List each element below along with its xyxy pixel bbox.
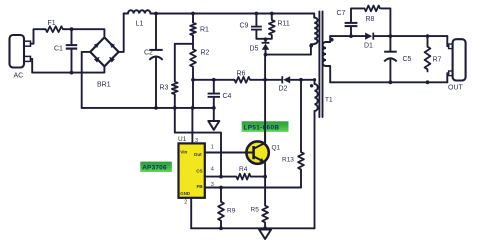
svg-text:CS: CS	[196, 169, 202, 174]
svg-text:R4: R4	[239, 166, 248, 173]
bridge rectifier BR1	[90, 37, 118, 66]
svg-text:OUT: OUT	[448, 85, 464, 92]
wire arrow stem	[213, 108, 215, 121]
resistor R7	[425, 45, 431, 72]
svg-text:C7: C7	[337, 10, 346, 17]
junction aux top	[313, 78, 316, 81]
resistor R6	[233, 77, 252, 83]
junction R1 top	[191, 12, 195, 16]
wire top rail	[151, 13, 315, 15]
junction CS descender	[219, 175, 223, 179]
wire Q1 emitter	[264, 163, 266, 177]
svg-text:C1: C1	[54, 46, 63, 53]
svg-text:T1: T1	[325, 97, 333, 104]
transformer T1 aux winding	[315, 80, 318, 229]
wire C7 top lead	[351, 8, 363, 22]
wire Vcc net	[193, 79, 234, 81]
wire AC neutral	[31, 59, 105, 73]
wire C5 top lead	[389, 36, 391, 51]
wire R13 top lead	[300, 80, 302, 151]
wire OUT pin to Q1 base	[205, 152, 247, 154]
junction collector crossing	[263, 78, 267, 82]
capacitor C4	[208, 93, 220, 98]
wire C5 bottom lead	[389, 60, 391, 83]
svg-text:C4: C4	[223, 93, 232, 100]
wire C9 bottom elbow	[256, 31, 265, 39]
wire R7 top lead	[427, 36, 429, 44]
svg-text:D1: D1	[364, 43, 373, 50]
wire output bottom rail	[330, 81, 447, 83]
wire D5 to switch node	[265, 50, 267, 55]
junction C7 bottom	[349, 34, 353, 38]
wire BR1 minus to bottom rail	[82, 52, 91, 108]
wire R3 to CS elbow	[175, 108, 221, 177]
capacitor C5	[384, 51, 397, 62]
wire R3 bottom	[174, 96, 176, 108]
junction C4 top	[212, 78, 216, 82]
phase dot aux	[310, 84, 313, 87]
wire switch node to primary	[266, 44, 315, 54]
capacitor C9	[251, 26, 262, 31]
resistor R11	[269, 19, 275, 37]
wire R13 bottom elbow	[300, 171, 302, 188]
capacitor C2	[149, 49, 162, 60]
AC input plug J1	[10, 35, 31, 68]
junction C9 top	[255, 12, 259, 16]
svg-text:R7: R7	[433, 57, 442, 64]
junction R5 bottom	[263, 226, 267, 230]
wire OUT bottom elbow	[447, 73, 448, 82]
wire R6 to D2	[252, 79, 282, 81]
capacitor C7	[345, 22, 358, 27]
wire FB net	[205, 187, 301, 189]
svg-text:R11: R11	[278, 21, 290, 28]
svg-text:4: 4	[211, 166, 214, 172]
wire C7 bottom lead	[350, 27, 352, 36]
wire GND pin2	[190, 198, 192, 229]
junction C1 top	[70, 27, 74, 31]
svg-text:D5: D5	[250, 46, 259, 53]
diode D5	[262, 42, 270, 50]
junction R2 bottom rail	[191, 106, 195, 110]
svg-text:Q1: Q1	[272, 145, 281, 152]
wire OUT top elbow	[447, 36, 448, 46]
wire R5 top lead	[264, 177, 266, 204]
junction C1 bottom	[70, 71, 74, 75]
junction FB-R9	[219, 186, 223, 190]
resistor R1	[190, 22, 196, 37]
svg-text:2: 2	[184, 200, 187, 206]
wire R8 to snubber corner	[382, 8, 391, 36]
resistor R13	[298, 151, 304, 172]
svg-text:R2: R2	[201, 50, 210, 57]
IC U1 body	[179, 143, 205, 197]
resistor R8	[363, 6, 382, 12]
wire CS net	[205, 176, 235, 178]
wire ground rail	[191, 227, 314, 229]
svg-text:C5: C5	[403, 56, 412, 63]
svg-text:C9: C9	[240, 23, 249, 30]
junction snubber node	[264, 37, 268, 41]
junction C2 bottom	[154, 106, 158, 110]
diode D1	[365, 33, 374, 40]
ground symbol	[259, 230, 271, 240]
inductor L1	[128, 10, 150, 13]
wire top rail left	[124, 13, 128, 15]
wire C1 bottom lead	[71, 50, 73, 73]
svg-text:LP51-060B: LP51-060B	[244, 125, 280, 132]
wire snubber to D5	[265, 39, 267, 42]
wire AC live to F1	[31, 29, 45, 44]
junction R9 bottom	[219, 226, 223, 230]
wire secondary top	[330, 35, 365, 37]
svg-text:R1: R1	[200, 27, 209, 34]
resistor R4	[235, 174, 252, 180]
svg-text:R9: R9	[227, 208, 236, 215]
svg-text:F1: F1	[48, 20, 56, 27]
svg-text:R6: R6	[237, 71, 246, 78]
junction C5 top	[389, 34, 393, 38]
junction R7 bottom	[426, 80, 430, 84]
transformer T1 secondary winding	[323, 36, 331, 82]
wire R11 top lead	[271, 14, 273, 19]
wire C1 top lead	[71, 29, 73, 44]
OUT plug J2	[449, 39, 466, 80]
wire R11 bottom elbow	[266, 37, 272, 39]
wire Q1 collector	[264, 132, 266, 143]
wire R9 bottom lead	[220, 223, 222, 229]
wire Vin pin3 lead	[191, 108, 193, 143]
svg-text:C2: C2	[144, 50, 153, 57]
phase dot primary	[309, 44, 313, 48]
transistor Q1	[246, 141, 268, 163]
svg-text:R3: R3	[160, 85, 169, 92]
svg-text:AC: AC	[14, 73, 24, 80]
svg-text:FB: FB	[197, 184, 204, 189]
green label AP3706	[140, 162, 172, 172]
resistor R2	[190, 48, 196, 69]
phase dot secondary	[330, 38, 334, 42]
wire D1 to output rail	[374, 35, 447, 37]
svg-text:R8: R8	[366, 16, 375, 23]
wire BR1 plus riser	[119, 14, 124, 52]
resistor R5	[262, 204, 268, 224]
svg-text:R5: R5	[251, 207, 260, 214]
wire R5 bottom lead	[264, 224, 266, 228]
junction R13 top	[299, 78, 303, 82]
svg-text:D2: D2	[279, 86, 288, 93]
green label LP51-060B	[242, 121, 289, 132]
resistor R9	[218, 200, 224, 223]
junction switch node	[264, 53, 268, 57]
wire C2 bottom lead	[155, 58, 157, 108]
fuse F1	[44, 26, 65, 32]
resistor R3	[172, 81, 178, 96]
svg-text:Vin: Vin	[180, 149, 187, 154]
svg-text:U1: U1	[178, 136, 187, 143]
svg-text:Out: Out	[194, 152, 202, 157]
wire D2 to aux winding	[290, 79, 314, 81]
wire C4 leads	[213, 80, 215, 108]
junction C5 bottom	[389, 80, 393, 84]
svg-text:1: 1	[211, 145, 214, 151]
junction R2 Vcc net	[191, 78, 195, 82]
wire R1-R2 junction	[192, 36, 194, 48]
capacitor C1	[66, 44, 77, 50]
arrow symbol (down)	[208, 121, 219, 130]
wire R3 branch	[175, 44, 193, 81]
svg-text:R13: R13	[282, 157, 294, 164]
wire switch node down (Q1 collector)	[264, 55, 266, 143]
svg-text:GND: GND	[180, 191, 190, 196]
junction R3 bottom rail	[173, 106, 177, 110]
svg-text:BR1: BR1	[97, 82, 111, 89]
wire C2 top lead	[155, 14, 157, 49]
wire C9 top lead	[255, 14, 257, 26]
svg-text:3: 3	[195, 138, 198, 144]
transformer T1 core	[319, 12, 322, 118]
diode D2	[281, 76, 290, 83]
junction R11 top	[270, 12, 274, 16]
transformer T1 primary winding	[314, 14, 317, 44]
svg-text:AP3706: AP3706	[142, 165, 167, 172]
wire R2 bottom	[192, 69, 194, 108]
wire R9 top lead	[220, 188, 222, 201]
junction C2 top	[154, 12, 158, 16]
svg-text:L1: L1	[136, 21, 144, 28]
wire input bottom rail	[82, 107, 214, 109]
wire R1 top lead	[192, 14, 194, 22]
junction R7 top	[426, 34, 430, 38]
wire F1 to BR1 top	[65, 29, 105, 36]
junction emitter-CS	[263, 175, 267, 179]
wire R4 to emitter	[252, 176, 265, 178]
junction C4 bottom rail	[212, 106, 216, 110]
